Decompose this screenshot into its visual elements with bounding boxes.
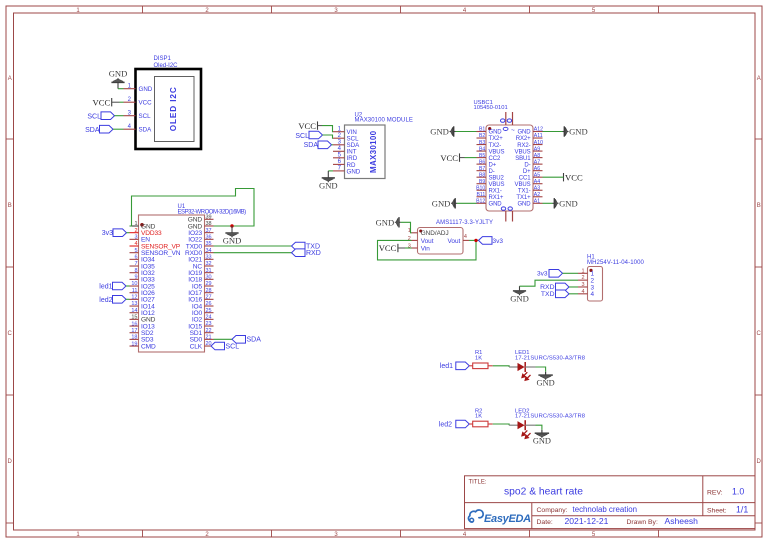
svg-text:B3: B3 — [479, 140, 485, 146]
svg-text:1/1: 1/1 — [736, 505, 748, 515]
USBC1 pin B10 RX1- — [476, 185, 502, 194]
wire ESP32 TXD0 to TXD flag — [214, 245, 292, 247]
net flag TXD — [292, 242, 321, 250]
ground symbol at USBC1 B12 — [432, 198, 457, 208]
svg-text:14: 14 — [131, 308, 137, 314]
ESP32 pin 34 RXD0 — [185, 248, 214, 257]
net flag TXD at H1 pin 4 — [541, 290, 569, 298]
USBC1 pin A9 VBUS — [515, 146, 543, 155]
svg-text:TX2-: TX2- — [489, 143, 502, 149]
ground symbol at USBC1 A12 — [563, 126, 588, 136]
svg-text:CC2: CC2 — [489, 156, 501, 162]
USBC1 pin B1 GND — [477, 127, 503, 136]
USBC1 shell pins bottom — [501, 207, 512, 222]
ESP32 pin 8 IO32 — [130, 268, 156, 277]
frame left ticks and row letters — [6, 76, 14, 523]
USBC1 pin A1 marker dot — [488, 127, 491, 130]
wire VCC to AMS1117 pin 3 — [398, 247, 412, 249]
svg-text:A8: A8 — [534, 153, 540, 159]
svg-text:GND: GND — [569, 127, 588, 137]
svg-text:GND: GND — [537, 378, 555, 387]
USBC1 pin B3 TX2- — [477, 140, 502, 149]
svg-text:RX1-: RX1- — [489, 188, 502, 194]
svg-text:C: C — [757, 331, 762, 337]
svg-text:7: 7 — [134, 261, 137, 267]
wire TXD flag to H1 pin 4 — [569, 293, 578, 295]
ESP32 pin 19 CMD — [130, 341, 156, 350]
svg-text:17-21SURC/S530-A3/TR8: 17-21SURC/S530-A3/TR8 — [515, 355, 585, 361]
svg-text:A10: A10 — [534, 140, 543, 146]
svg-text:3v3: 3v3 — [102, 230, 113, 237]
ESP32 pin 32 NC — [193, 261, 214, 270]
svg-text:SDA: SDA — [139, 127, 153, 134]
ESP32 pin 33 IO21 — [188, 255, 213, 264]
svg-text:TXD: TXD — [541, 291, 555, 298]
svg-text:D: D — [757, 459, 762, 465]
OLED pin 4 SDA — [124, 124, 153, 134]
svg-text:22: 22 — [206, 328, 212, 334]
title block REV — [707, 487, 744, 497]
USBC1 pin B5 CC2 — [477, 153, 501, 162]
svg-text:1: 1 — [134, 221, 137, 227]
USBC1 pin B4 VBUS — [477, 146, 505, 155]
connector H1 body — [588, 267, 603, 302]
USBC1 pin B12 GND — [476, 198, 502, 207]
wire AMS1117 Vout pin 2 loop to output node — [378, 240, 477, 260]
ground symbol at LED2 — [533, 430, 551, 446]
svg-text:B1: B1 — [479, 127, 485, 133]
USBC1 pin A4 VBUS — [515, 179, 543, 188]
title block Company row — [537, 505, 638, 514]
svg-text:B2: B2 — [479, 133, 485, 139]
svg-text:4: 4 — [464, 234, 467, 240]
net flag SDA at ESP32 pin 21 — [232, 336, 261, 344]
svg-text:VCC: VCC — [298, 121, 316, 131]
ESP32 pin 23 IO15 — [188, 321, 213, 330]
svg-text:A9: A9 — [534, 146, 540, 152]
svg-text:17-21SURC/S530-A3/TR8: 17-21SURC/S530-A3/TR8 — [515, 414, 585, 420]
wire led2 flag to ESP32 pin 12 — [126, 298, 130, 300]
svg-text:RX1+: RX1+ — [489, 195, 504, 201]
AMS1117 pin 1 GND/ADJ — [408, 228, 449, 237]
ESP32 pin 39 GND — [188, 215, 214, 224]
USBC1 pin A5 CC1 — [519, 172, 543, 181]
svg-text:1.0: 1.0 — [732, 487, 744, 497]
ground symbol below ESP32 GND junction — [223, 226, 242, 246]
frame top ticks and column numbers — [76, 6, 658, 14]
svg-text:SBU2: SBU2 — [489, 175, 505, 181]
wire ESP32 pin1 GND loop to pins 38/39 — [130, 189, 255, 227]
USBC1 pin B6 D+ — [477, 159, 497, 168]
ESP32 pin 7 IO35 — [130, 261, 156, 270]
svg-text:VCC: VCC — [379, 243, 397, 253]
VCC symbol at MAX30100 VIN — [298, 121, 317, 131]
ESP32 pin 35 TXD0 — [186, 241, 214, 250]
svg-text:B5: B5 — [479, 153, 485, 159]
svg-text:4: 4 — [134, 241, 137, 247]
USBC1 pin B8 SBU2 — [477, 172, 505, 181]
svg-text:Asheesh: Asheesh — [665, 516, 699, 526]
svg-text:GND: GND — [432, 198, 451, 208]
MAX30100 pin 5 IRD — [333, 153, 358, 163]
LED LED1 body — [509, 362, 535, 380]
net flag 3v3 at AMS1117 output — [479, 237, 504, 245]
AMS1117 pin 2 Vout — [408, 236, 434, 245]
net flag SDA at MAX30100 pin 3 — [304, 141, 332, 149]
svg-text:33: 33 — [206, 255, 212, 261]
svg-text:A3: A3 — [534, 185, 540, 191]
wire VCC to USBC1 B5 — [460, 157, 477, 159]
svg-text:GND: GND — [510, 294, 529, 304]
USBC1 pin A1 GND — [517, 198, 542, 207]
svg-text:Company:: Company: — [537, 507, 568, 514]
svg-text:VCC: VCC — [93, 97, 111, 107]
svg-text:B8: B8 — [479, 172, 485, 178]
svg-text:GND/ADJ: GND/ADJ — [421, 230, 449, 237]
ground symbol at USBC1 B1 — [430, 126, 455, 136]
svg-text:1K: 1K — [475, 355, 482, 361]
net flag led1 — [440, 362, 470, 370]
svg-text:32: 32 — [206, 261, 212, 267]
svg-text:18: 18 — [131, 335, 137, 341]
USBC1 pin B2 TX2+ — [477, 133, 504, 142]
ESP32 pin 13 IO14 — [130, 301, 156, 310]
wire ground to USBC1 B1 — [456, 131, 477, 133]
ESP32 pin 30 IO18 — [188, 275, 213, 284]
svg-text:D-: D- — [524, 162, 530, 168]
OLED pin 2 VCC — [124, 97, 153, 107]
svg-text:VBUS: VBUS — [515, 182, 531, 188]
ESP32 pin 11 IO26 — [130, 288, 156, 297]
svg-text:16: 16 — [131, 321, 137, 327]
wire R2 to LED2 — [493, 424, 509, 425]
ESP32 pin 29 IO5 — [192, 281, 214, 290]
svg-text:B6: B6 — [479, 159, 485, 165]
ESP32 pin 2 VDD33 — [130, 228, 162, 237]
wire USBC1 A12 to ground — [543, 131, 563, 133]
svg-text:4: 4 — [581, 289, 584, 295]
svg-text:OLED I2C: OLED I2C — [169, 86, 178, 131]
ESP32 pin 3 EN — [130, 235, 151, 244]
svg-text:B: B — [8, 203, 12, 209]
wire LED1 cathode to ground — [536, 367, 546, 372]
USBC1 pin A8 SBU1 — [515, 153, 542, 162]
wire led1 flag to ESP32 pin 10 — [126, 285, 130, 287]
ground symbol at AMS1117 pin 1 — [376, 217, 401, 227]
wire H1 pin 2 to ground — [520, 280, 579, 286]
junction at AMS1117 output node — [474, 239, 477, 242]
svg-text:D-: D- — [489, 169, 495, 175]
USB connector USBC1 reference labels — [474, 100, 508, 111]
ESP32 pin 9 IO33 — [130, 275, 156, 284]
resistor R2 labels — [475, 409, 482, 420]
svg-text:B7: B7 — [479, 166, 485, 172]
svg-text:11: 11 — [132, 288, 138, 294]
svg-text:technolab creation: technolab creation — [573, 505, 638, 514]
svg-text:GND: GND — [489, 201, 503, 207]
svg-text:GND: GND — [223, 236, 242, 246]
wire SCL flag to MAX30100 pin 2 — [323, 135, 334, 138]
ground symbol at MAX30100 pin 7 — [319, 171, 338, 191]
svg-text:RX2+: RX2+ — [516, 136, 531, 142]
svg-text:B11: B11 — [476, 192, 485, 198]
svg-text:2021-12-21: 2021-12-21 — [565, 516, 609, 526]
LED LED1 labels — [515, 350, 585, 361]
wire 3v3 flag to H1 pin 1 — [563, 272, 579, 274]
MAX30100 pin 2 SCL — [333, 133, 359, 143]
net flag led2 — [439, 420, 470, 428]
USBC1 pin B9 VBUS — [477, 179, 505, 188]
net flag SCL at MAX30100 pin 2 — [295, 131, 322, 140]
net flag SCL at ESP32 pin 20 — [211, 342, 239, 350]
svg-text:A5: A5 — [534, 172, 540, 178]
svg-text:B4: B4 — [479, 146, 485, 152]
ESP32 pin 16 IO13 — [130, 321, 156, 330]
ESP32 pin 17 SD2 — [130, 328, 154, 337]
H1 pin 4 — [578, 289, 595, 298]
ESP32 pin 37 IO23 — [188, 228, 213, 237]
ESP32 pin 10 IO25 — [130, 281, 156, 290]
ESP32 pin 22 SD1 — [190, 328, 214, 337]
svg-text:Sheet:: Sheet: — [707, 507, 727, 514]
svg-text:led1: led1 — [99, 284, 112, 291]
MAX30100 pin 7 GND — [333, 166, 361, 176]
wire ESP32 RXD0 to RXD flag — [214, 252, 292, 254]
MAX30100 pin 3 SDA — [333, 140, 360, 150]
USBC1 pin A10 RX2- — [517, 140, 543, 149]
svg-text:GND: GND — [109, 68, 128, 78]
ground symbol at H1 pin 2 — [510, 286, 529, 303]
svg-text:GND: GND — [533, 437, 551, 446]
svg-text:105450-0101: 105450-0101 — [474, 105, 508, 111]
svg-text:Drawn By:: Drawn By: — [627, 519, 658, 526]
OLED pin 3 SCL — [124, 111, 152, 121]
ESP32 pin 6 IO34 — [130, 255, 156, 264]
svg-text:10: 10 — [131, 281, 137, 287]
net flag 3v3 at H1 pin 1 — [537, 270, 562, 278]
svg-text:EasyEDA: EasyEDA — [484, 513, 531, 525]
svg-text:39: 39 — [206, 215, 212, 221]
svg-text:VCC: VCC — [139, 100, 153, 107]
svg-text:24: 24 — [206, 315, 212, 321]
svg-text:27: 27 — [206, 295, 212, 301]
H1 pin 1 — [578, 268, 595, 277]
svg-text:15: 15 — [131, 315, 137, 321]
OLED pin 1 GND — [124, 84, 153, 94]
svg-text:CC1: CC1 — [519, 175, 531, 181]
ESP32 pin 15 GND — [130, 315, 156, 324]
svg-text:23: 23 — [206, 321, 212, 327]
svg-text:led2: led2 — [99, 297, 112, 304]
svg-text:38: 38 — [206, 221, 212, 227]
svg-text:B9: B9 — [479, 179, 485, 185]
svg-text:2: 2 — [581, 275, 584, 281]
svg-text:1K: 1K — [475, 414, 482, 420]
net flag SCL at OLED pin 3 — [87, 112, 114, 121]
svg-text:MH254V-11-04-1000: MH254V-11-04-1000 — [587, 260, 645, 266]
USBC1 pin A2 TX1+ — [516, 192, 542, 201]
wire LED2 cathode to ground — [536, 425, 542, 430]
svg-text:SDA: SDA — [304, 142, 319, 149]
wire 3v3 flag to ESP32 pin 2 — [127, 232, 130, 234]
resistor R1 body — [469, 363, 492, 369]
svg-text:GND: GND — [517, 201, 531, 207]
ESP32 pin 1 marker dot — [140, 223, 144, 227]
svg-text:9: 9 — [134, 275, 137, 281]
svg-text:led2: led2 — [439, 421, 452, 428]
svg-text:CMD: CMD — [141, 343, 156, 350]
svg-text:26: 26 — [206, 301, 212, 307]
resistor R1 labels — [475, 350, 482, 361]
svg-text:spo2 & heart rate: spo2 & heart rate — [504, 487, 583, 498]
wire SDA flag to MAX30100 pin 3 — [332, 144, 334, 146]
svg-text:DISP1: DISP1 — [154, 56, 172, 62]
svg-text:SCL: SCL — [226, 343, 240, 350]
ESP32 pin 4 SENSOR_VP — [130, 241, 181, 250]
svg-text:VBUS: VBUS — [489, 149, 505, 155]
svg-text:VBUS: VBUS — [515, 149, 531, 155]
USBC1 shell pins top — [501, 112, 513, 125]
ESP32 pin 21 SD0 — [190, 335, 214, 344]
svg-text:37: 37 — [206, 228, 212, 234]
svg-text:D: D — [8, 459, 13, 465]
svg-text:Date:: Date: — [537, 519, 553, 526]
AMS1117 pin 1 marker dot — [419, 230, 422, 233]
wire VCC to MAX30100 pin 1 — [318, 126, 334, 132]
frame bottom ticks and column numbers — [76, 530, 658, 538]
ground symbol at USBC1 A1 — [553, 198, 578, 208]
svg-text:2: 2 — [134, 228, 137, 234]
ESP32 pin 18 SD3 — [130, 335, 154, 344]
frame right ticks and row letters — [755, 76, 762, 523]
svg-text:A: A — [757, 76, 761, 82]
svg-text:34: 34 — [206, 248, 212, 254]
title block outline — [465, 476, 756, 529]
svg-text:TITLE:: TITLE: — [469, 480, 487, 486]
svg-text:B10: B10 — [476, 185, 485, 191]
VCC symbol at USBC1 B5 — [440, 153, 459, 163]
svg-text:TX1+: TX1+ — [516, 195, 531, 201]
svg-text:3: 3 — [581, 282, 584, 288]
svg-text:A7: A7 — [534, 159, 540, 165]
LED LED2 body — [509, 420, 535, 438]
ESP32 pin 5 SENSOR_VN — [130, 248, 181, 257]
svg-text:D+: D+ — [489, 162, 497, 168]
svg-text:D+: D+ — [523, 169, 531, 175]
MAX30100 pin 1 VIN — [333, 127, 357, 137]
svg-text:35: 35 — [206, 241, 212, 247]
svg-text:1: 1 — [581, 268, 584, 274]
svg-text:GND: GND — [559, 198, 578, 208]
svg-text:Vout: Vout — [421, 238, 434, 245]
svg-text:36: 36 — [206, 235, 212, 241]
svg-text:GND: GND — [517, 130, 531, 136]
svg-text:25: 25 — [206, 308, 212, 314]
svg-text:A: A — [8, 76, 12, 82]
svg-text:B12: B12 — [476, 198, 485, 204]
svg-text:AMS1117-3.3-YJLTY: AMS1117-3.3-YJLTY — [436, 220, 493, 226]
ESP32 pin 24 IO2 — [192, 315, 214, 324]
net flag RXD — [292, 249, 321, 257]
svg-text:RXD: RXD — [306, 250, 321, 257]
svg-text:4: 4 — [591, 291, 595, 298]
svg-text:GND: GND — [430, 127, 449, 137]
svg-text:GND: GND — [347, 168, 361, 175]
wire R1 to LED1 — [493, 366, 509, 367]
ESP32 pin 1 GND — [130, 221, 156, 230]
svg-text:17: 17 — [131, 328, 137, 334]
svg-text:~: ~ — [511, 127, 515, 134]
svg-text:VCC: VCC — [565, 172, 583, 182]
H1 pin 2 — [578, 275, 595, 284]
USBC1 pin A6 D+ — [523, 166, 543, 175]
USBC1 pin A3 TX1- — [518, 185, 543, 194]
net flag RXD at H1 pin 3 — [540, 283, 569, 291]
MAX30100 module U2 reference labels — [355, 112, 414, 123]
svg-text:TX2+: TX2+ — [489, 136, 504, 142]
ESP32 pin 25 IO0 — [192, 308, 214, 317]
svg-text:A12: A12 — [534, 127, 543, 133]
svg-text:3v3: 3v3 — [537, 271, 548, 278]
svg-text:28: 28 — [206, 288, 212, 294]
USBC1 pin B7 D- — [477, 166, 495, 175]
EasyEDA logo — [468, 510, 531, 525]
svg-text:SCL: SCL — [87, 113, 101, 120]
svg-text:Vin: Vin — [421, 246, 431, 253]
wire VCC to OLED pin 2 — [112, 101, 124, 103]
svg-text:C: C — [8, 331, 13, 337]
svg-text:CLK: CLK — [190, 343, 203, 350]
wire ground to AMS1117 pin 1 — [401, 222, 412, 233]
LED LED2 labels — [515, 409, 585, 420]
MAX30100 pin 6 RD — [333, 159, 356, 169]
title block TITLE text — [469, 480, 584, 498]
svg-text:GND: GND — [489, 130, 503, 136]
svg-text:GND: GND — [319, 181, 338, 191]
svg-text:31: 31 — [206, 268, 212, 274]
wire ground to USBC1 B12 — [457, 202, 477, 204]
ground symbol at LED1 — [537, 372, 555, 388]
USBC1 shell pad ovals inside — [503, 127, 515, 134]
VCC symbol at OLED pin 2 — [93, 97, 112, 107]
OLED display DISP1 reference labels — [154, 56, 179, 69]
title block Sheet — [707, 505, 748, 515]
wire ESP32 SD0 to SDA flag — [214, 338, 233, 340]
ESP32 pin 36 IO22 — [188, 235, 213, 244]
wire OLED GND to pin 1 — [118, 88, 124, 90]
svg-text:MAX30100 MODULE: MAX30100 MODULE — [355, 118, 414, 124]
ESP32 pin 38 GND — [188, 221, 214, 230]
ground symbol at OLED pin 1 — [109, 68, 128, 88]
H1 pin 3 — [578, 282, 595, 291]
svg-text:TX1-: TX1- — [518, 188, 531, 194]
svg-text:12: 12 — [131, 295, 137, 301]
H1 pin 1 marker dot — [589, 269, 592, 272]
svg-text:A4: A4 — [534, 179, 540, 185]
net flag SDA at OLED pin 4 — [85, 125, 113, 133]
svg-text:SDA: SDA — [85, 127, 100, 134]
USBC1 pin A7 D- — [524, 159, 542, 168]
VCC symbol at USBC1 A5 — [564, 172, 583, 182]
USBC1 pin A11 RX2+ — [516, 133, 543, 142]
svg-text:SCL: SCL — [139, 113, 152, 120]
svg-text:Vout: Vout — [448, 238, 461, 245]
svg-text:19: 19 — [131, 341, 137, 347]
svg-text:21: 21 — [206, 335, 212, 341]
net flag led1 at ESP32 pin 10 — [99, 282, 126, 290]
MAX30100 pin 4 INT — [333, 146, 357, 156]
ESP32 pin 20 CLK — [190, 341, 214, 350]
